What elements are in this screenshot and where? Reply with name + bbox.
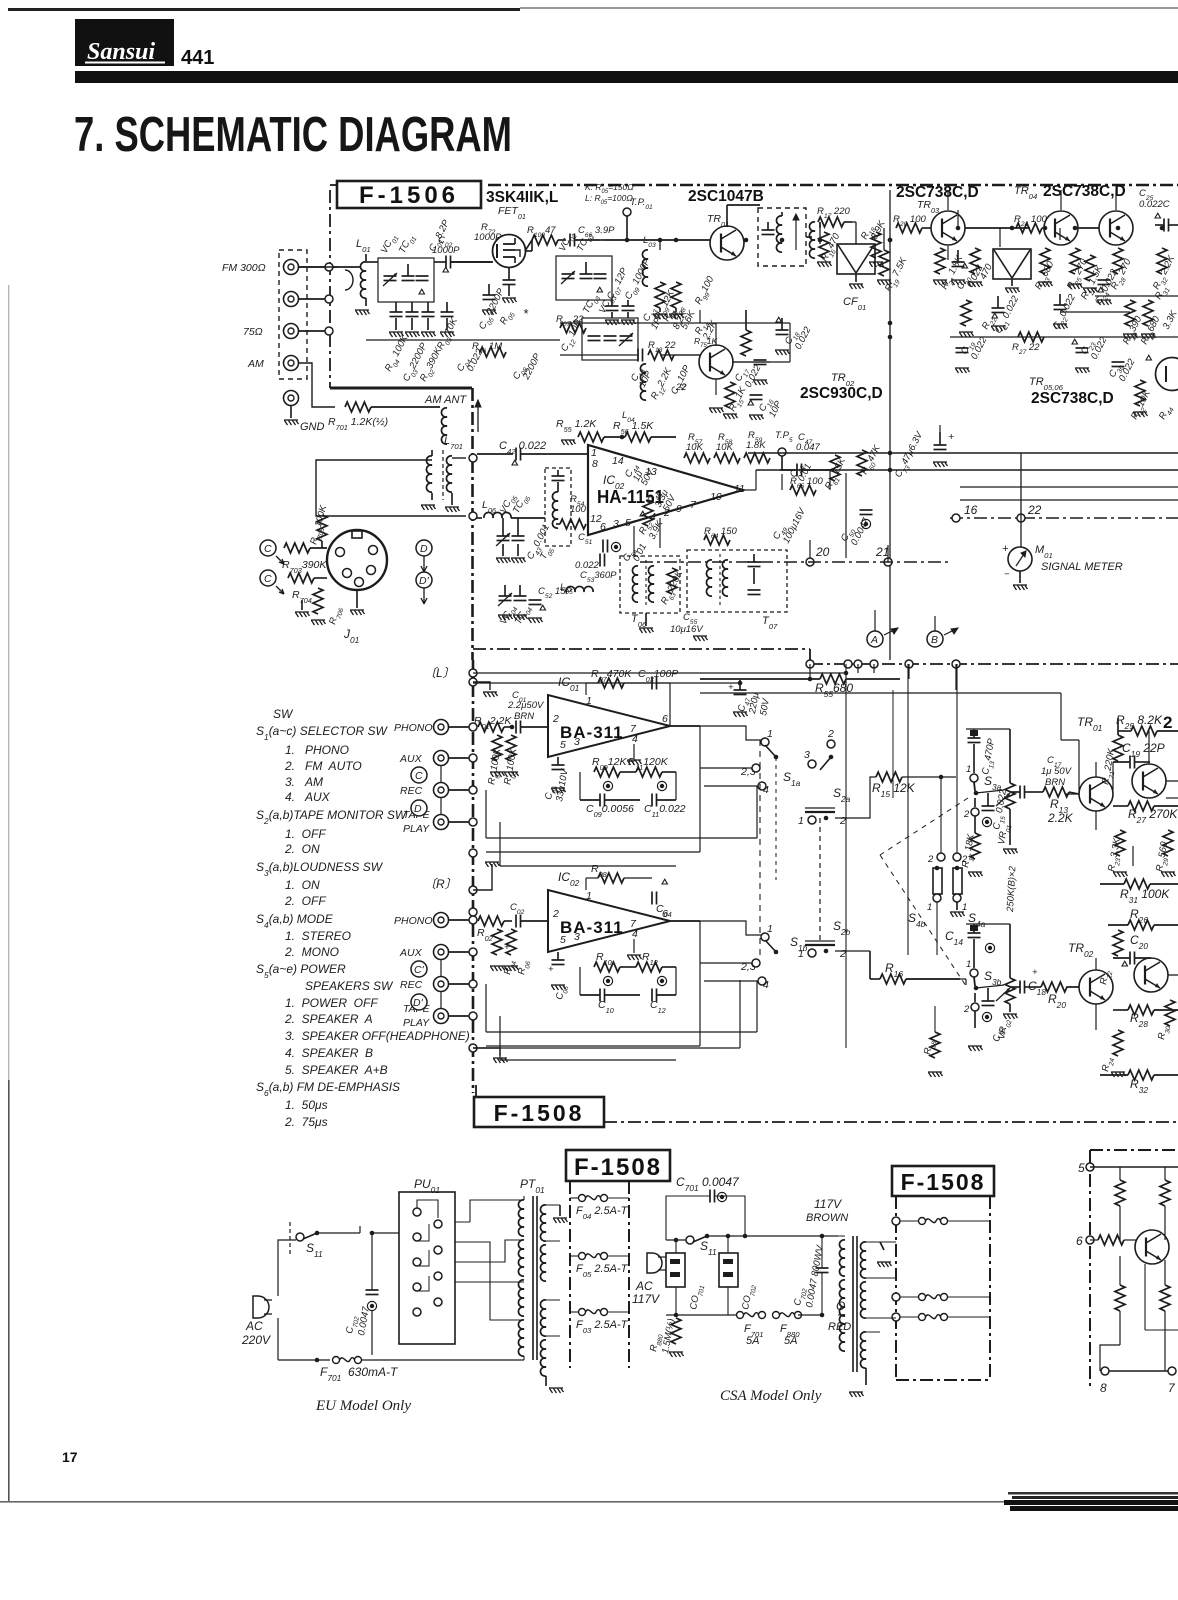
svg-text:C: C	[264, 573, 272, 585]
svg-text:C090.0056: C090.0056	[586, 803, 634, 819]
svg-text:2. OFF: 2. OFF	[284, 894, 326, 908]
svg-text:REC: REC	[400, 979, 423, 991]
svg-text:F-1506: F-1506	[359, 182, 459, 209]
svg-text:8: 8	[592, 458, 598, 470]
svg-text:AC: AC	[245, 1319, 263, 1333]
svg-text:VR02: VR02	[996, 1018, 1013, 1041]
svg-text:2.2K: 2.2K	[1047, 811, 1074, 825]
svg-text:11: 11	[734, 483, 745, 495]
svg-text:C7347μ6.3V: C7347μ6.3V	[893, 429, 928, 481]
svg-text:1. POWER OFF: 1. POWER OFF	[285, 996, 378, 1010]
svg-text:PLAY: PLAY	[403, 823, 430, 835]
svg-text:FET01: FET01	[498, 205, 526, 221]
svg-text:5A: 5A	[784, 1335, 797, 1347]
svg-text:R03 10K: R03 10K	[435, 316, 463, 353]
svg-text:2SC930C,D: 2SC930C,D	[800, 385, 883, 402]
svg-text:3: 3	[613, 518, 619, 530]
svg-text:1000P: 1000P	[432, 245, 460, 256]
svg-text:22: 22	[675, 382, 687, 393]
svg-text:100: 100	[570, 504, 587, 515]
svg-text:R08: R08	[591, 863, 608, 879]
svg-text:B: B	[931, 634, 938, 646]
svg-text:AM ANT: AM ANT	[424, 394, 467, 406]
svg-text:T.P5: T.P5	[775, 430, 793, 444]
svg-text:R122.2K: R122.2K	[649, 366, 677, 403]
svg-text:7: 7	[1168, 1381, 1176, 1395]
svg-text:+: +	[1032, 967, 1038, 978]
svg-text:7. SCHEMATIC DIAGRAM: 7. SCHEMATIC DIAGRAM	[74, 108, 512, 162]
svg-text:1. ON: 1. ON	[285, 878, 320, 892]
svg-text:D': D'	[413, 997, 424, 1009]
svg-text:AM: AM	[247, 358, 264, 370]
svg-text:BROWN: BROWN	[806, 1212, 848, 1224]
svg-text:C: C	[264, 543, 272, 555]
svg-text:9: 9	[676, 503, 682, 515]
svg-text:R64 150: R64 150	[704, 526, 737, 540]
svg-text:2. ON: 2. ON	[284, 842, 320, 856]
svg-text:C66 3.9P: C66 3.9P	[578, 225, 615, 239]
svg-text:2. FM AUTO: 2. FM AUTO	[284, 759, 362, 773]
svg-text:33μ10V: 33μ10V	[554, 767, 571, 803]
svg-text:VC02: VC02	[557, 230, 579, 255]
svg-text:6: 6	[662, 713, 668, 725]
svg-text:IC02: IC02	[558, 870, 580, 888]
svg-text:F701 630mA-T: F701 630mA-T	[320, 1365, 399, 1383]
svg-text:C09 1000P: C09 1000P	[623, 256, 655, 302]
svg-text:1: 1	[966, 764, 971, 775]
svg-text:1: 1	[962, 902, 967, 913]
svg-text:5: 5	[560, 739, 566, 751]
svg-text:C110.022: C110.022	[644, 803, 686, 819]
svg-text:F05 2.5A-T: F05 2.5A-T	[576, 1263, 629, 1279]
svg-text:F-1508: F-1508	[574, 1154, 662, 1181]
svg-text:100μ16V: 100μ16V	[781, 505, 809, 545]
svg-text:6: 6	[600, 521, 606, 533]
svg-text:F03 2.5A-T: F03 2.5A-T	[576, 1319, 629, 1335]
svg-text:C02: C02	[510, 902, 525, 916]
svg-text:2SC738C,D: 2SC738C,D	[1031, 390, 1114, 407]
svg-text:R31 100K: R31 100K	[1120, 887, 1170, 905]
svg-text:A: A	[870, 634, 878, 646]
svg-text:S2b: S2b	[833, 919, 851, 937]
svg-text:〔L〕: 〔L〕	[424, 666, 455, 680]
svg-text:5: 5	[625, 517, 631, 529]
svg-text:F04 2.5A-T: F04 2.5A-T	[576, 1205, 629, 1221]
svg-text:0.047: 0.047	[796, 442, 820, 453]
svg-text:250K(B)×2: 250K(B)×2	[1005, 865, 1018, 913]
svg-text:S3b: S3b	[984, 969, 1002, 987]
svg-text:4. AUX: 4. AUX	[285, 790, 331, 804]
svg-text:TR03: TR03	[917, 199, 940, 215]
svg-text:S5(a~e) POWER: S5(a~e) POWER	[256, 962, 346, 980]
svg-text:T06: T06	[631, 613, 647, 629]
svg-text:3.3K: 3.3K	[1161, 308, 1178, 331]
svg-text:R25 8.2K: R25 8.2K	[1116, 713, 1163, 731]
svg-text:S1a: S1a	[783, 770, 801, 788]
svg-text:L01: L01	[356, 238, 371, 254]
svg-text:C701 0.0047: C701 0.0047	[676, 1175, 740, 1193]
svg-text:R56 1.5K: R56 1.5K	[613, 420, 654, 436]
svg-text:R21220K: R21220K	[1100, 747, 1120, 786]
svg-text:TR01: TR01	[1077, 715, 1102, 733]
svg-text:4: 4	[632, 733, 638, 745]
svg-text:2SC738C,D: 2SC738C,D	[1043, 183, 1126, 200]
svg-text:S4(a,b) MODE: S4(a,b) MODE	[256, 912, 334, 930]
svg-text:PLAY: PLAY	[403, 1017, 430, 1029]
svg-text:SIGNAL METER: SIGNAL METER	[1041, 561, 1123, 573]
svg-text:10μ16V: 10μ16V	[670, 624, 704, 635]
svg-text:BA-311: BA-311	[560, 723, 624, 742]
svg-text:R02: R02	[477, 927, 493, 943]
svg-text:F-1508: F-1508	[901, 1169, 986, 1195]
svg-text:R07470K: R07470K	[591, 668, 632, 684]
svg-text:S3(a,b)LOUDNESS SW: S3(a,b)LOUDNESS SW	[256, 860, 384, 878]
svg-text:S1(a~c) SELECTOR SW: S1(a~c) SELECTOR SW	[256, 724, 388, 742]
svg-text:C19 22P: C19 22P	[1122, 741, 1165, 759]
svg-text:−: −	[496, 942, 502, 953]
svg-text:R04 100K: R04 100K	[383, 333, 413, 375]
svg-text:T07: T07	[762, 615, 778, 631]
svg-text:R28: R28	[1130, 1011, 1148, 1029]
svg-text:F-1508: F-1508	[494, 1100, 585, 1126]
svg-text:0.022C: 0.022C	[1139, 199, 1170, 210]
svg-text:C': C'	[414, 964, 425, 976]
svg-text:2: 2	[552, 908, 559, 920]
svg-text:2: 2	[961, 854, 968, 865]
svg-text:2: 2	[963, 1004, 970, 1015]
svg-text:R27 22: R27 22	[1012, 342, 1040, 356]
svg-text:AUX: AUX	[399, 947, 423, 959]
svg-text:R15 12K: R15 12K	[872, 781, 916, 799]
svg-text:+: +	[548, 964, 554, 975]
svg-text:R701 1.2K(½): R701 1.2K(½)	[328, 416, 388, 432]
svg-text:2: 2	[839, 948, 846, 960]
svg-text:D: D	[420, 543, 428, 555]
svg-text:TC01: TC01	[397, 232, 418, 256]
svg-text:S11: S11	[306, 1241, 323, 1259]
svg-text:C13470P: C13470P	[980, 737, 1000, 776]
svg-text:TR01: TR01	[707, 213, 729, 229]
svg-text:T.P.01: T.P.01	[630, 197, 653, 211]
svg-text:R703390K: R703390K	[282, 559, 327, 575]
svg-text:1: 1	[586, 890, 592, 902]
svg-text:R63220K: R63220K	[659, 568, 688, 607]
svg-text:5: 5	[1078, 1161, 1085, 1175]
svg-text:+: +	[504, 942, 510, 953]
svg-text:D': D'	[419, 575, 430, 587]
svg-text:D: D	[414, 803, 422, 815]
svg-text:R06: R06	[516, 959, 532, 976]
svg-text:1. 50μs: 1. 50μs	[285, 1098, 328, 1112]
svg-text:−: −	[1004, 569, 1010, 580]
svg-text:R6047K: R6047K	[859, 443, 885, 477]
svg-text:VC01: VC01	[379, 232, 401, 257]
svg-text:S11: S11	[700, 1239, 717, 1257]
svg-text:L03: L03	[643, 235, 656, 249]
svg-text:M01: M01	[1035, 544, 1053, 560]
svg-text:2. 75μs: 2. 75μs	[284, 1115, 328, 1129]
svg-text:21: 21	[875, 545, 889, 559]
svg-text:CO701: CO701	[688, 1283, 706, 1311]
svg-text:L: R05=100Ω: L: R05=100Ω	[585, 193, 633, 206]
svg-text:R20: R20	[1048, 992, 1066, 1010]
svg-text:R05: R05	[498, 308, 517, 327]
svg-text:1.8K: 1.8K	[746, 440, 766, 451]
svg-text:1: 1	[927, 902, 932, 913]
svg-text:3: 3	[574, 931, 580, 943]
svg-text:R99100: R99100	[693, 274, 719, 308]
svg-text:EU Model Only: EU Model Only	[315, 1398, 411, 1414]
svg-text:5: 5	[560, 934, 566, 946]
svg-text:AUX: AUX	[399, 753, 423, 765]
svg-text:7: 7	[690, 499, 697, 511]
svg-text:R55 1.2K: R55 1.2K	[556, 418, 597, 434]
svg-text:C52 15P: C52 15P	[538, 586, 572, 600]
svg-text:C53360P: C53360P	[580, 570, 617, 584]
svg-text:AC: AC	[635, 1279, 653, 1293]
svg-text:2. MONO: 2. MONO	[284, 945, 339, 959]
svg-text:SW: SW	[273, 707, 294, 721]
svg-text:S2a: S2a	[833, 786, 851, 804]
svg-text:3: 3	[804, 749, 810, 761]
svg-text:2: 2	[839, 815, 846, 827]
svg-text:1μ 50V: 1μ 50V	[1041, 766, 1073, 777]
svg-text:1: 1	[767, 728, 773, 740]
svg-text:1: 1	[966, 959, 971, 970]
svg-text:S4b: S4b	[908, 911, 926, 929]
svg-text:S6(a,b) FM DE-EMPHASIS: S6(a,b) FM DE-EMPHASIS	[256, 1080, 400, 1098]
svg-text:1000P: 1000P	[474, 232, 502, 243]
svg-text:+: +	[728, 682, 734, 693]
svg-text:*: *	[523, 306, 529, 321]
svg-text:6: 6	[1076, 1234, 1083, 1248]
svg-text:GND: GND	[300, 421, 325, 433]
svg-text:117V: 117V	[632, 1292, 660, 1306]
svg-text:R13 22: R13 22	[648, 340, 676, 354]
svg-text:Sansui: Sansui	[87, 39, 155, 65]
svg-text:2SC738C,D: 2SC738C,D	[896, 184, 979, 201]
svg-text:TR02: TR02	[1068, 941, 1094, 959]
svg-text:C: C	[415, 770, 423, 782]
svg-text:S2(a,b)TAPE MONITOR SW: S2(a,b)TAPE MONITOR SW	[256, 808, 408, 826]
svg-text:TR04: TR04	[1014, 185, 1037, 201]
svg-text:R12: R12	[642, 951, 658, 967]
svg-text:C20: C20	[1130, 933, 1148, 951]
svg-text:CF01: CF01	[843, 296, 866, 312]
svg-text:75Ω: 75Ω	[243, 326, 263, 338]
svg-text:3. AM: 3. AM	[285, 775, 323, 789]
svg-text:2: 2	[827, 728, 834, 740]
svg-text:2: 2	[1163, 713, 1172, 732]
svg-text:J01: J01	[343, 627, 359, 645]
svg-text:10: 10	[710, 491, 722, 503]
svg-text:CO702: CO702	[740, 1283, 758, 1311]
svg-text:2.2μ50V: 2.2μ50V	[507, 700, 545, 711]
svg-text:22: 22	[1027, 503, 1042, 517]
svg-text:2: 2	[927, 854, 934, 865]
svg-text:2. SPEAKER A: 2. SPEAKER A	[284, 1012, 373, 1026]
svg-text:1. OFF: 1. OFF	[285, 827, 326, 841]
svg-text:PHONO: PHONO	[394, 722, 433, 734]
svg-text:R32: R32	[1130, 1077, 1148, 1095]
svg-text:3. SPEAKER OFF(HEADPHONE): 3. SPEAKER OFF(HEADPHONE)	[285, 1029, 470, 1043]
svg-text:SPEAKERS SW: SPEAKERS SW	[305, 979, 394, 993]
svg-text:R44: R44	[1157, 403, 1176, 422]
svg-text:1. STEREO: 1. STEREO	[285, 929, 351, 943]
svg-text:BA-311: BA-311	[560, 918, 624, 937]
svg-text:4: 4	[632, 928, 638, 940]
svg-text:+: +	[1002, 543, 1009, 555]
svg-text:20: 20	[815, 545, 830, 559]
svg-text:CSA Model Only: CSA Model Only	[720, 1388, 822, 1404]
svg-text:R17 220: R17 220	[817, 206, 850, 220]
svg-text:R16470: R16470	[819, 231, 845, 265]
svg-text:5. SPEAKER A+B: 5. SPEAKER A+B	[285, 1063, 388, 1077]
svg-text:PHONO: PHONO	[394, 915, 433, 927]
svg-text:R706: R706	[327, 605, 345, 626]
svg-text:R4210K: R4210K	[1129, 388, 1155, 422]
svg-text:117V: 117V	[814, 1197, 842, 1211]
svg-text:441: 441	[181, 47, 214, 69]
svg-text:220V: 220V	[241, 1333, 271, 1347]
svg-text:1: 1	[798, 948, 804, 960]
svg-text:+: +	[948, 431, 954, 443]
svg-text:L701: L701	[444, 435, 463, 451]
svg-text:IC01: IC01	[558, 675, 579, 693]
svg-text:2SC1047B: 2SC1047B	[688, 188, 764, 205]
svg-text:2: 2	[552, 713, 559, 725]
svg-text:C04: C04	[656, 903, 672, 919]
svg-text:16: 16	[964, 503, 978, 517]
svg-text:PT01: PT01	[520, 1177, 545, 1195]
svg-text:C03100P: C03100P	[638, 668, 678, 684]
svg-text:8: 8	[1100, 1381, 1107, 1395]
svg-text:1. PHONO: 1. PHONO	[285, 743, 349, 757]
svg-text:REC: REC	[400, 785, 423, 797]
svg-text:3: 3	[574, 736, 580, 748]
svg-text:〔R〕: 〔R〕	[424, 877, 457, 891]
svg-text:0.0047 800WV: 0.0047 800WV	[804, 1243, 826, 1308]
svg-text:FM 300Ω: FM 300Ω	[222, 262, 266, 274]
svg-text:5A: 5A	[746, 1335, 759, 1347]
svg-text:1: 1	[586, 695, 592, 707]
svg-text:R22: R22	[1098, 969, 1114, 986]
svg-text:14: 14	[612, 455, 624, 467]
svg-text:2200P: 2200P	[520, 351, 543, 382]
svg-text:1: 1	[798, 815, 804, 827]
svg-text:2: 2	[963, 809, 970, 820]
svg-text:C14: C14	[945, 929, 963, 947]
svg-text:17: 17	[62, 1449, 78, 1465]
svg-text:1: 1	[767, 923, 773, 935]
svg-text:4. SPEAKER B: 4. SPEAKER B	[285, 1046, 373, 1060]
svg-text:R23680: R23680	[1033, 259, 1059, 293]
svg-text:BRN: BRN	[514, 711, 534, 722]
svg-text:50V: 50V	[758, 696, 772, 716]
svg-text:R24: R24	[1100, 1056, 1116, 1073]
svg-text:R30: R30	[1156, 1024, 1172, 1041]
svg-text:3SK4IIK,L: 3SK4IIK,L	[486, 189, 558, 206]
